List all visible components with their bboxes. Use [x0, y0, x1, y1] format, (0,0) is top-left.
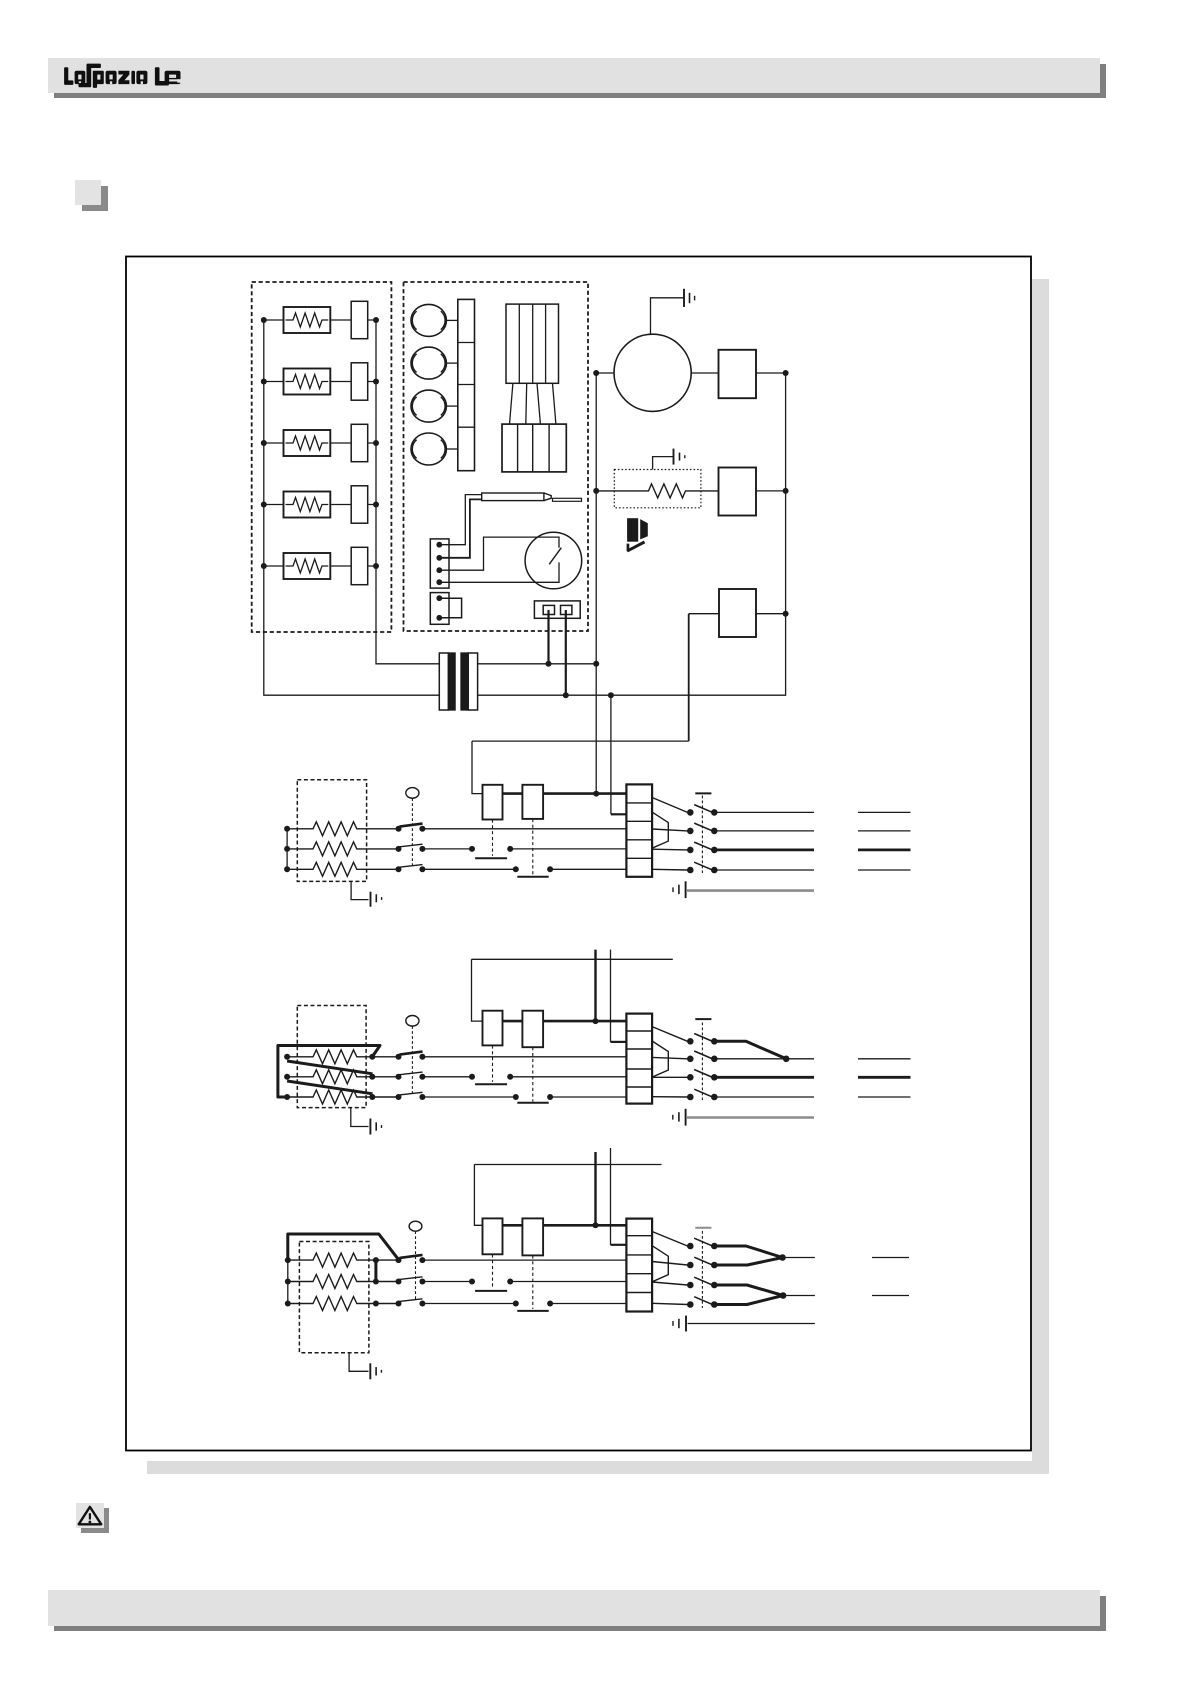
connector fan wires	[510, 383, 556, 424]
motor M	[614, 334, 691, 411]
node mid bus junction	[593, 661, 599, 667]
heating element R4 row	[261, 486, 379, 523]
sec3 element ground	[349, 1353, 381, 1380]
sec1 element bus	[286, 829, 288, 870]
sec2 element R1	[287, 1050, 398, 1064]
contactor K2	[719, 468, 757, 516]
sec1 breaker pole 2	[687, 823, 718, 834]
sec1 relay coil 2	[522, 785, 543, 819]
sec3 coil feed	[474, 1165, 482, 1226]
sec3 link bracket	[652, 1246, 668, 1282]
sec3 element R3	[288, 1297, 399, 1311]
sec2 supply wires	[714, 1059, 814, 1097]
header bar shadow	[54, 64, 1106, 98]
sec1 supply wires	[714, 812, 814, 870]
wire right bus to transformer	[376, 320, 439, 664]
temperature probe	[482, 493, 582, 501]
sec2 relay coil 1	[483, 1011, 503, 1046]
sec3 neutral entry	[611, 1244, 627, 1246]
sec2 series link loop	[278, 1046, 380, 1098]
sec1 wire row 3 with contact	[422, 868, 626, 870]
sec2 series link diag 1	[287, 1061, 372, 1074]
anti-scale resistor dotted box	[614, 470, 701, 508]
sec3 feed stub thick	[594, 1152, 596, 1225]
sec1 element R1	[287, 822, 398, 836]
sec2 relay coil 2	[522, 1011, 543, 1047]
sec2 breaker pole 3	[687, 1070, 718, 1081]
sec2 neutral entry	[611, 1041, 627, 1043]
sec2 node phase link	[783, 1056, 790, 1063]
sec3 node coil bus	[593, 1222, 599, 1228]
valve connector strip	[458, 299, 475, 470]
sec3 phase bridge 1	[714, 1246, 782, 1265]
node transformer top junction	[546, 661, 552, 667]
sec2 main switch pole 2	[396, 1072, 426, 1080]
sec2 coil2 actuator link	[532, 1047, 534, 1101]
sec3 fan wire 1	[652, 1232, 687, 1247]
sec2 elements dashed box	[297, 1006, 366, 1108]
sec2 breaker link	[701, 1023, 703, 1101]
wire K3 left feed	[689, 613, 719, 615]
sec2 main switch pole 1	[396, 1052, 426, 1060]
node K2 right	[783, 488, 789, 494]
sec2 PE ground	[673, 1109, 686, 1126]
sec3 main switch knob	[409, 1221, 422, 1231]
solenoid valve EV3	[411, 390, 458, 422]
sec2 feed stub thin	[610, 950, 612, 1042]
sec3 top wire	[474, 1164, 661, 1166]
sec2 terminal block	[626, 1014, 652, 1104]
sec1 element nodes	[284, 826, 290, 873]
schematic frame	[126, 257, 1031, 1451]
sec3 breaker link	[701, 1231, 703, 1308]
sec1 breaker pole 1	[687, 805, 718, 816]
anti-scale resistor	[596, 484, 718, 498]
sec3 PE ground	[673, 1316, 686, 1332]
small square marker icon	[75, 180, 108, 211]
sec2 main switch pole 3	[396, 1092, 426, 1100]
warning icon shadow	[81, 1508, 109, 1533]
jumper connector	[430, 593, 461, 625]
sec3 element bus	[287, 1260, 289, 1303]
sec3 breaker pole 4	[687, 1297, 718, 1308]
footer bar	[48, 1590, 1100, 1626]
header bar	[48, 58, 1100, 93]
probe wire a	[439, 495, 481, 545]
heating element R5 row	[261, 547, 379, 584]
sec3 wire row 1	[422, 1259, 626, 1261]
sec2 coil bus	[503, 1020, 627, 1023]
sec1 main switch pole 2	[396, 844, 426, 852]
footer bar shadow	[54, 1596, 1106, 1631]
sec1 coil bus	[503, 792, 627, 795]
sec3 element R2	[288, 1275, 399, 1289]
sec3 feed stub thin	[610, 1148, 612, 1245]
sec1 elements dashed box	[297, 780, 366, 882]
sec2 top wire	[472, 958, 673, 960]
sec3 elements dashed box	[299, 1242, 369, 1353]
sec1 element R2	[287, 842, 398, 856]
sec1 neutral entry	[611, 813, 627, 815]
sec2 element R3	[287, 1090, 398, 1104]
sec1 wire row 2 with contact	[422, 848, 626, 850]
sec3 phase link thick	[288, 1234, 399, 1260]
heating elements dashed box	[252, 282, 392, 632]
La Spaziale logo	[64, 64, 180, 88]
sec3 PE wire	[688, 1323, 815, 1325]
sec2 wire row 1	[422, 1056, 626, 1058]
schematic frame shadow	[1032, 279, 1049, 1474]
solenoid valve EV2	[411, 347, 458, 379]
sec2 phase link thick	[714, 1041, 786, 1059]
sec3 supply terminals	[872, 1258, 909, 1296]
mains pin wire N	[565, 610, 567, 695]
heating element R3 row	[261, 424, 379, 461]
wire K3 right	[756, 613, 786, 615]
sec2 PE wire	[687, 1116, 814, 1119]
sec2 series link diag 2	[287, 1081, 372, 1094]
pressostat P	[525, 532, 582, 589]
sec3 relay coil 2	[522, 1218, 543, 1255]
sec1 terminal block	[626, 784, 652, 876]
sec2 coil feed	[472, 959, 483, 1021]
sec3 element nodes	[285, 1257, 379, 1306]
sec1 node coil bus	[593, 791, 599, 797]
mains 2-pin connector	[534, 601, 580, 618]
wire mid bus	[595, 373, 597, 794]
sec2 wire row 2 with contact	[422, 1076, 626, 1078]
sec1 relay coil 1	[483, 785, 503, 820]
sec2 coil1 actuator link	[492, 1045, 494, 1082]
solenoid valve EV4	[411, 433, 458, 465]
sec2 feed stub thick	[594, 950, 596, 1022]
wire left bus to transformer	[264, 320, 440, 695]
sec3 breaker pole 1	[687, 1238, 718, 1249]
sec2 element nodes	[284, 1054, 375, 1100]
CPU connector block lower	[502, 424, 566, 472]
sec3 wire row 3 with contact	[422, 1303, 626, 1305]
sec1 fan wire 1	[652, 798, 687, 813]
probe connector CN	[430, 539, 449, 588]
sec3 parallel jumper	[374, 1260, 377, 1281]
node motor left	[593, 370, 599, 376]
sec1 breaker pole 4	[687, 862, 718, 873]
pressostat wire upper	[439, 537, 559, 570]
node K3 right	[783, 611, 789, 617]
CPU connector block upper	[506, 304, 559, 383]
solenoid valve EV1	[411, 304, 458, 336]
sec3 main switch link	[415, 1231, 417, 1301]
sec2 breaker pole 4	[687, 1089, 718, 1100]
sec2 node coil bus	[593, 1018, 599, 1024]
sec1 breaker pole 3	[687, 842, 718, 853]
sec2 main switch link	[411, 1026, 413, 1095]
sec1 coil1 actuator link	[492, 820, 494, 856]
sec2 fan wire 1	[652, 1027, 687, 1042]
contactor K3	[719, 589, 756, 637]
sec3 breaker pole 3	[687, 1277, 718, 1288]
sec1 element R3	[287, 862, 398, 876]
wire motor row	[596, 372, 785, 374]
sec2 wire row 3 with contact	[422, 1096, 626, 1098]
sec3 terminal block	[626, 1219, 652, 1312]
sec3 coil bus	[503, 1224, 627, 1227]
sec1 main switch pole 1	[396, 824, 426, 832]
sec1 main switch pole 3	[396, 865, 426, 873]
sec1 breaker link	[701, 796, 703, 874]
sec1 supply terminals	[858, 812, 911, 870]
sec3 main switch pole 1	[396, 1255, 426, 1263]
sec3 relay coil 1	[483, 1218, 503, 1254]
sec1 fan wires	[652, 829, 687, 870]
sec2 fan wires	[652, 1057, 687, 1097]
sec2 element R2	[287, 1070, 398, 1084]
sec2 link bracket	[652, 1041, 668, 1077]
sec1 main switch link	[411, 798, 413, 867]
ground symbol mid	[653, 449, 685, 470]
sec3 main switch pole 2	[396, 1277, 426, 1285]
sec1 wire row 1	[422, 828, 626, 830]
heating element R1 row	[261, 301, 379, 338]
node transformer bottom junction	[563, 692, 569, 698]
mains pin wire L	[547, 610, 549, 664]
sec3 element R1	[288, 1253, 399, 1267]
control board dashed box	[404, 282, 589, 631]
sec3 breaker pole 2	[687, 1257, 718, 1268]
sec2 breaker pole 1	[687, 1034, 718, 1045]
sec1 PE ground	[673, 881, 686, 898]
pressostat wire lower	[439, 562, 559, 582]
heating element R2 row	[261, 363, 379, 400]
wire K2 right	[756, 490, 786, 492]
sec3 coil2 actuator link	[532, 1255, 534, 1309]
sec2 supply terminals	[858, 1059, 911, 1097]
sec1 coil2 actuator link	[532, 819, 534, 876]
sec1 link bracket	[652, 812, 668, 848]
sec1 PE wire	[687, 889, 814, 892]
sec2 element ground	[351, 1108, 382, 1135]
sec1 coil feed	[472, 741, 483, 794]
wire right bus	[478, 373, 786, 695]
node motor right	[783, 370, 789, 376]
wire control feed top	[472, 740, 689, 742]
sec3 fan wires	[652, 1262, 687, 1305]
sec3 wire row 2 with contact	[422, 1281, 626, 1283]
node K2 left	[593, 488, 599, 494]
node neutral junction	[608, 692, 614, 698]
sec3 main switch pole 3	[396, 1299, 426, 1307]
TRANSFORMER T1	[439, 653, 477, 710]
buzzer icon	[627, 518, 648, 552]
wire transformer top	[478, 663, 597, 665]
warning icon plate	[76, 1503, 104, 1528]
sec2 breaker pole 2	[687, 1051, 718, 1062]
contactor K1	[719, 350, 757, 398]
sec3 coil1 actuator link	[492, 1254, 494, 1288]
sec3 phase bridge 2	[714, 1285, 783, 1305]
warning triangle	[79, 1507, 102, 1524]
ground symbol top	[651, 289, 695, 335]
sec1 main switch knob	[406, 788, 419, 799]
sec2 main switch knob	[406, 1016, 419, 1027]
probe wire b	[439, 499, 481, 557]
wire neutral drop	[610, 695, 612, 814]
sec1 element ground	[351, 881, 382, 906]
